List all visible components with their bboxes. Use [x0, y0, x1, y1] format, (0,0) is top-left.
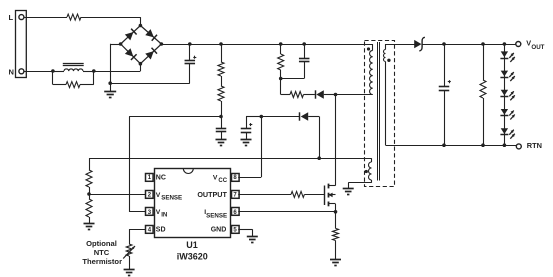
svg-text:OUT: OUT [531, 44, 544, 51]
svg-text:SENSE: SENSE [206, 212, 227, 219]
svg-text:L: L [9, 13, 14, 22]
svg-text:SENSE: SENSE [161, 194, 182, 201]
svg-text:N: N [9, 67, 14, 76]
svg-text:IN: IN [161, 212, 168, 219]
svg-text:U1: U1 [186, 240, 198, 250]
svg-text:CC: CC [218, 178, 227, 184]
svg-text:V: V [156, 209, 161, 216]
svg-text:OUTPUT: OUTPUT [197, 190, 227, 199]
svg-text:V: V [156, 192, 161, 199]
svg-text:NTC: NTC [94, 248, 110, 257]
svg-text:Thermistor: Thermistor [82, 257, 122, 266]
svg-text:Optional: Optional [86, 239, 117, 248]
svg-text:SD: SD [156, 227, 166, 234]
svg-text:RTN: RTN [527, 141, 542, 150]
svg-text:NC: NC [156, 175, 166, 182]
svg-text:iW3620: iW3620 [177, 251, 208, 261]
svg-text:GND: GND [211, 226, 227, 233]
svg-text:V: V [213, 175, 218, 182]
